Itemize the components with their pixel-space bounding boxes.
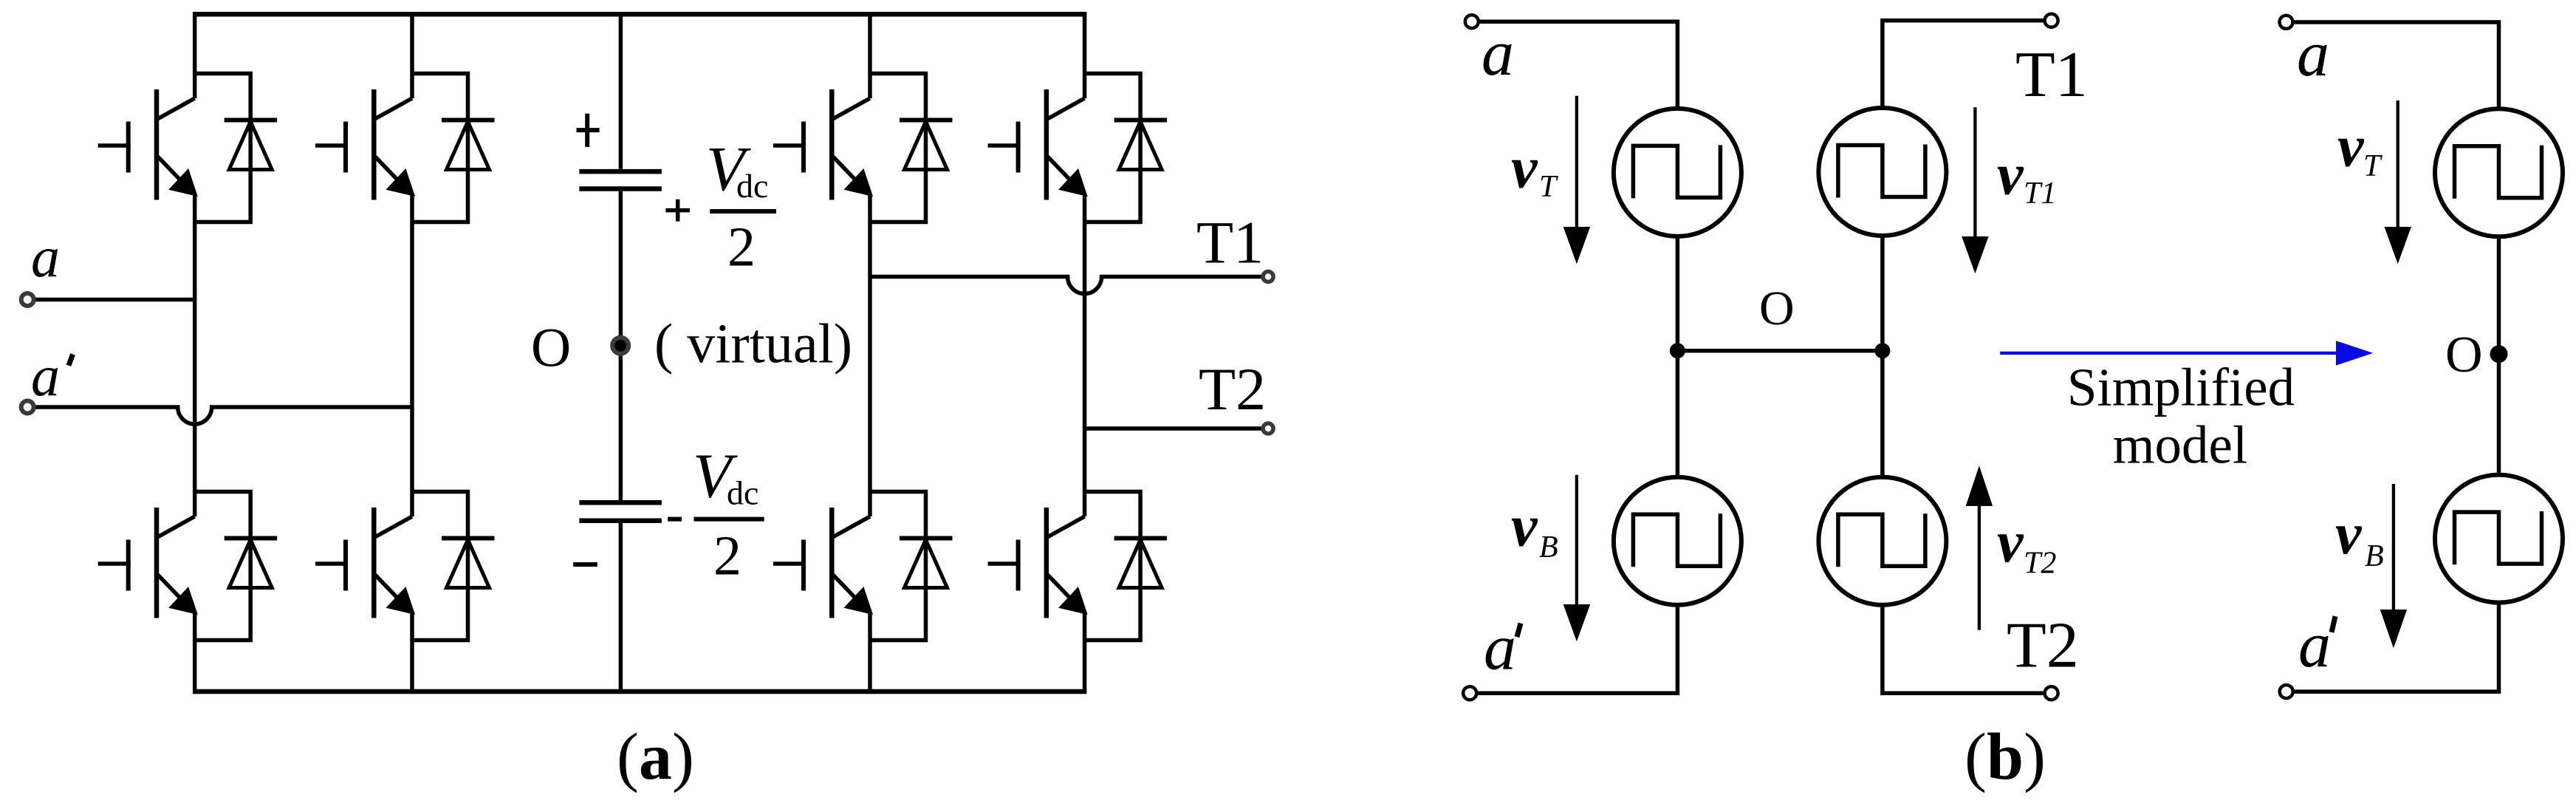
svg-text:T2: T2 bbox=[2024, 547, 2056, 581]
wire: output T2 from leg 4 bbox=[1085, 426, 1262, 431]
wire: T1 terminal to VT1 source bbox=[1883, 21, 2045, 108]
wire: leg 1 vertical segments bbox=[193, 12, 197, 694]
terminal a (open circle) bbox=[21, 293, 34, 306]
arrow for vT (down) bbox=[1563, 96, 1591, 264]
svg-text:v: v bbox=[2337, 114, 2365, 179]
wire: leg 4 vertical segments bbox=[1083, 12, 1087, 694]
IGBT S3 top of leg 3 with antiparallel diode bbox=[773, 74, 953, 222]
IGBT S1 top of leg 1 with antiparallel diode bbox=[98, 74, 278, 222]
wire: O to VB (b-right) bbox=[2497, 354, 2501, 476]
svg-text:a: a bbox=[1481, 18, 1514, 89]
blue arrow simplified-model bbox=[2000, 341, 2373, 365]
node O dot right bbox=[1874, 343, 1890, 358]
svg-text:a: a bbox=[31, 344, 60, 408]
terminal a' (b-left) bbox=[1463, 686, 1476, 700]
prime of a' (b-left) bbox=[1517, 624, 1521, 638]
svg-text:O: O bbox=[531, 318, 571, 379]
svg-text:( virtual): ( virtual) bbox=[654, 313, 852, 375]
node O dot left bbox=[1670, 343, 1685, 358]
arrow for vT (b-right, down) bbox=[2385, 100, 2411, 264]
svg-text:(a): (a) bbox=[617, 720, 694, 793]
svg-text:a: a bbox=[1484, 612, 1516, 683]
square-wave source VT (b-right) bbox=[2435, 109, 2563, 236]
svg-text:T: T bbox=[2363, 149, 2383, 183]
prime of a' (b-right) bbox=[2332, 616, 2335, 632]
wire: a terminal to top of leg (b-right) bbox=[2292, 22, 2499, 109]
value label +Vdc/2 of capacitor C1 bbox=[665, 133, 776, 279]
capacitor C2 (lower DC-link) plates bbox=[579, 502, 662, 521]
polarity - of capacitor C2 bbox=[573, 562, 597, 567]
wire: output T1 from leg 3 with hop over leg 4 bbox=[870, 277, 1262, 294]
svg-text:T1: T1 bbox=[1196, 208, 1264, 276]
terminal T2 (b-left) bbox=[2045, 686, 2058, 700]
arrow for vT2 (up) bbox=[1966, 465, 1993, 630]
IGBT S5 bottom of leg 1 with antiparallel diode bbox=[98, 492, 278, 641]
prime mark of a' bbox=[69, 354, 73, 365]
square-wave source VB (b-right) bbox=[2435, 475, 2563, 603]
svg-text:v: v bbox=[2335, 502, 2363, 567]
IGBT S4 top of leg 4 with antiparallel diode bbox=[988, 74, 1168, 222]
wire: bottom DC bus bbox=[193, 689, 1086, 694]
square-wave source VT2 (left circuit) bbox=[1818, 477, 1946, 605]
square-wave source VB (left circuit) bbox=[1614, 477, 1741, 605]
wire: DC-link capacitor branch vertical bbox=[619, 14, 623, 692]
wire: VT source to O node bbox=[1676, 236, 1680, 351]
arrow for vT1 (down) bbox=[1962, 107, 1988, 273]
terminal T1 (open circle) bbox=[1263, 272, 1273, 282]
wire: input terminal a to leg 1 bbox=[35, 298, 195, 302]
wire: VB to a' (b-right) bbox=[2293, 601, 2499, 692]
svg-text:T1: T1 bbox=[2024, 177, 2056, 211]
node O dot (b-right) bbox=[2490, 345, 2508, 363]
svg-text:v: v bbox=[1511, 135, 1538, 200]
svg-text:O: O bbox=[1759, 281, 1795, 335]
svg-text:dc: dc bbox=[727, 474, 758, 511]
node O (virtual midpoint dot) bbox=[612, 338, 628, 354]
wire: VT to O (b-right) bbox=[2497, 236, 2501, 354]
svg-text:B: B bbox=[1539, 530, 1558, 564]
arrow for vB (down) bbox=[1563, 475, 1591, 642]
terminal a' (b-right) bbox=[2280, 685, 2293, 698]
terminal a (b-left) bbox=[1465, 15, 1479, 28]
wire: top DC bus bbox=[193, 12, 1086, 17]
svg-text:(b): (b) bbox=[1964, 720, 2046, 793]
wire: O node to VT2 source bbox=[1880, 351, 1885, 477]
svg-text:dc: dc bbox=[736, 167, 768, 205]
svg-text:B: B bbox=[2365, 539, 2384, 573]
svg-text:2: 2 bbox=[713, 525, 741, 587]
terminal T2 (open circle) bbox=[1263, 423, 1273, 434]
svg-text:a: a bbox=[2297, 18, 2329, 90]
IGBT S6 bottom of leg 2 with antiparallel diode bbox=[315, 492, 495, 641]
svg-text:2: 2 bbox=[727, 216, 756, 279]
svg-text:T2: T2 bbox=[1199, 355, 1266, 423]
terminal a (b-right) bbox=[2280, 16, 2293, 29]
IGBT S2 top of leg 2 with antiparallel diode bbox=[315, 74, 495, 222]
svg-text:a: a bbox=[2298, 610, 2331, 681]
svg-text:v: v bbox=[1511, 494, 1538, 559]
svg-text:model: model bbox=[2113, 415, 2247, 475]
IGBT S7 bottom of leg 3 with antiparallel diode bbox=[773, 492, 953, 641]
polarity + of capacitor C1 bbox=[577, 114, 600, 147]
terminal T1 (b-left) bbox=[2045, 14, 2058, 27]
terminal a' (open circle) bbox=[21, 401, 34, 414]
svg-text:v: v bbox=[1997, 510, 2024, 575]
wire: leg 2 vertical segments bbox=[410, 12, 414, 694]
svg-text:v: v bbox=[1997, 143, 2024, 208]
wire: VT1 source to O node bbox=[1880, 236, 1885, 351]
square-wave source VT (left circuit) bbox=[1614, 109, 1741, 236]
wire: VT2 source to T2 terminal bbox=[1883, 605, 2045, 693]
wire: O node to VB source bbox=[1676, 351, 1680, 477]
square-wave source VT1 (left circuit) bbox=[1818, 108, 1946, 236]
svg-text:a: a bbox=[31, 225, 60, 289]
wire: O node horizontal bbox=[1677, 349, 1883, 353]
wire: input terminal a' to leg 2 with hop over leg 1 bbox=[35, 407, 412, 424]
svg-text:T: T bbox=[1539, 170, 1558, 204]
IGBT S8 bottom of leg 4 with antiparallel diode bbox=[988, 492, 1168, 641]
svg-text:Simplified: Simplified bbox=[2067, 358, 2295, 417]
svg-text:T2: T2 bbox=[2007, 610, 2079, 681]
svg-text:T1: T1 bbox=[2015, 39, 2088, 111]
wire: VB source to a' terminal bbox=[1476, 605, 1677, 693]
capacitor C1 (upper DC-link) plates bbox=[579, 171, 662, 188]
wire: a terminal to top of left leg bbox=[1479, 21, 1678, 109]
svg-text:O: O bbox=[2445, 327, 2483, 383]
wire: leg 3 vertical segments bbox=[868, 12, 872, 694]
value label -Vdc/2 of capacitor C2 bbox=[668, 440, 764, 587]
arrow for vB (b-right, down) bbox=[2380, 484, 2407, 648]
